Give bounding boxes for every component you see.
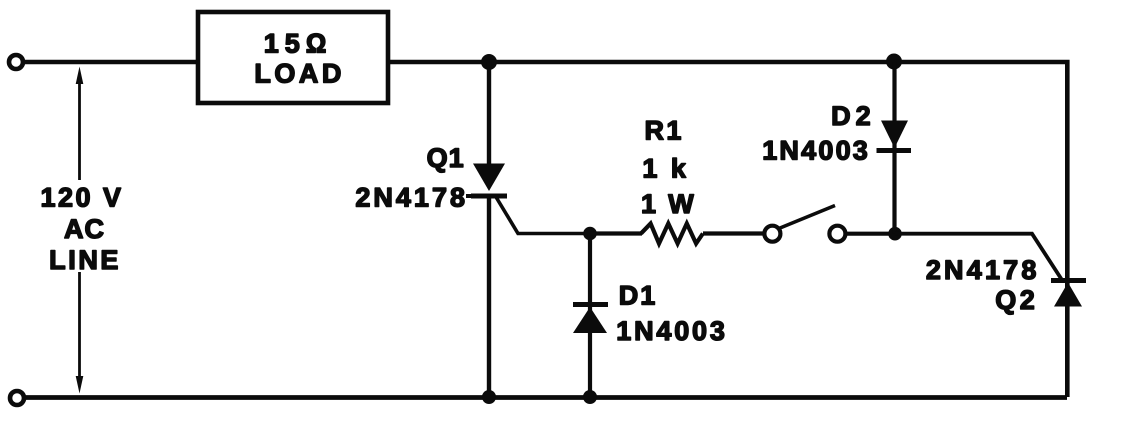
- load LOAD 15-ohm (box): [198, 12, 388, 103]
- wire Q1 gate (diagonal then horizontal to node C): [496, 197, 592, 234]
- svg-text:D2: D2: [831, 101, 876, 131]
- svg-text:R1: R1: [645, 116, 684, 146]
- wire top rail: load box to node A: [390, 60, 489, 65]
- wire Q1 anode (node A down to Q1): [487, 62, 491, 166]
- wire D2 branch vertical: [892, 62, 896, 234]
- AC source measure line with arrows: [76, 67, 84, 394]
- resistor R1 (zigzag): [641, 224, 703, 244]
- node 120 V AC LINE (label): [40, 182, 123, 275]
- wire R1 to switch: [703, 231, 763, 235]
- switch S1 (two contacts + lever): [764, 206, 845, 242]
- svg-text:15Ω: 15Ω: [264, 29, 333, 59]
- svg-text:AC: AC: [64, 214, 105, 244]
- node A (top of Q1 branch): [481, 54, 497, 70]
- thyristor Q2 (cathode bar + up triangle): [1051, 281, 1086, 307]
- svg-text:2N4178: 2N4178: [355, 183, 468, 213]
- wire Q1 cathode down to bottom rail: [487, 196, 491, 397]
- node D1 anode at bottom rail: [583, 390, 597, 404]
- node B (top of D2 branch): [886, 54, 902, 70]
- wire top rail: node A to node B: [489, 60, 894, 65]
- node Q1 cathode at bottom rail: [482, 390, 496, 404]
- svg-text:120 V: 120 V: [40, 182, 123, 212]
- svg-text:D1: D1: [619, 281, 658, 311]
- label 2N4178 (Q1) with tick: [355, 183, 480, 213]
- wire gate line: node C to resistor R1: [590, 231, 642, 235]
- svg-text:1 W: 1 W: [641, 189, 696, 219]
- svg-text:Q2: Q2: [995, 285, 1038, 315]
- node D (switch / D2 bottom / Q2 gate junction): [888, 227, 902, 241]
- svg-text:LOAD: LOAD: [254, 59, 345, 89]
- terminal top-left: [9, 55, 23, 69]
- wire D1 branch vertical: [588, 234, 592, 398]
- wire bottom rail: [24, 395, 1067, 400]
- thyristor Q1 (triangle + cathode bar): [471, 164, 507, 197]
- node C (gate line / D1 top): [583, 227, 597, 241]
- wire switch to node D: [847, 232, 895, 236]
- wire top rail: terminal to load box: [25, 60, 196, 65]
- svg-text:1N4003: 1N4003: [616, 316, 727, 346]
- wire Q2 gate (node D horizontal then diagonal): [895, 234, 1062, 280]
- wire top rail right + right rail down to bottom-right corner: [894, 62, 1067, 397]
- svg-text:1 k: 1 k: [642, 153, 689, 183]
- svg-text:Q1: Q1: [427, 143, 465, 173]
- svg-text:1N4003: 1N4003: [762, 136, 870, 166]
- diode D1 (cathode bar + up triangle): [573, 305, 608, 334]
- terminal bottom-left: [10, 391, 24, 405]
- svg-text:2N4178: 2N4178: [926, 255, 1040, 285]
- svg-text:LINE: LINE: [49, 245, 121, 275]
- diode D2 (down triangle + cathode bar): [877, 121, 912, 151]
